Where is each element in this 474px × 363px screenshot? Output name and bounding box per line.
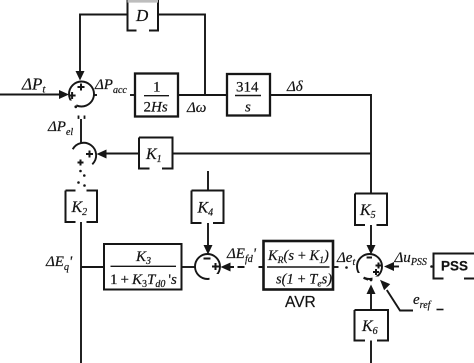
svg-text:PSS: PSS	[441, 259, 468, 274]
svg-text:Δδ: Δδ	[286, 79, 304, 95]
svg-text:1: 1	[153, 80, 161, 96]
svg-text:2Hs: 2Hs	[144, 100, 168, 116]
svg-text:D: D	[135, 6, 149, 25]
svg-text:Δω: Δω	[186, 100, 206, 116]
svg-text:314: 314	[236, 80, 259, 96]
svg-text:s: s	[245, 100, 251, 116]
svg-text:s(1 + Tes): s(1 + Tes)	[276, 272, 332, 290]
svg-text:AVR: AVR	[285, 294, 316, 311]
